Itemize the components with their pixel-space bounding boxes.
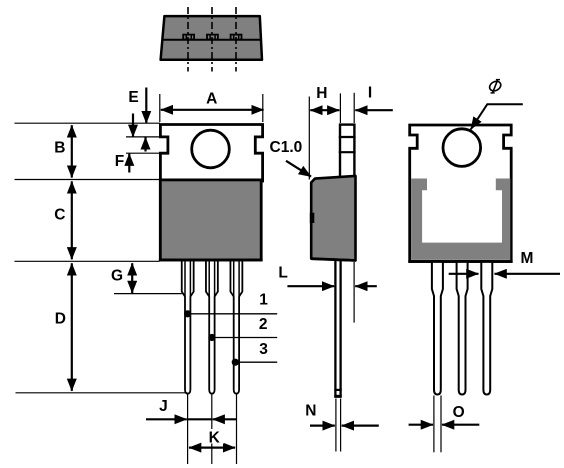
dimension M left arrow: [449, 273, 479, 275]
pin 2 callout line: [212, 337, 277, 339]
dimension O right arrow: [442, 424, 479, 426]
extension line lead2 center: [211, 395, 213, 465]
extension line lead tip: [16, 392, 188, 394]
side view lead tip square: [334, 395, 341, 398]
svg-text:O: O: [453, 404, 465, 421]
dimension K arrow: [189, 447, 235, 449]
back view molding flash (gray U): [411, 179, 510, 260]
extension line H left: [308, 97, 310, 180]
extension line N left: [335, 399, 337, 452]
back view lead 3: [481, 261, 492, 395]
phi label: [488, 79, 503, 92]
top view centerline pin1: [187, 7, 189, 72]
notch top extension line: [126, 136, 161, 138]
side view lead tip bar: [334, 389, 341, 391]
svg-text:G: G: [111, 268, 123, 285]
phi leader arrow: [471, 104, 523, 129]
front view lead 3: [230, 259, 242, 394]
svg-text:L: L: [278, 264, 287, 281]
dimension H arrow: [310, 109, 339, 111]
side view tab strip groove 2: [339, 151, 356, 153]
top view lead 1 cross-section: [183, 34, 194, 40]
pin 1 callout dot: [184, 310, 191, 317]
svg-text:A: A: [206, 90, 217, 107]
front view lead 3 inner edges: [233, 262, 235, 297]
dimension E lower arrow: [144, 137, 146, 151]
side view lead: [335, 260, 340, 397]
extension line lead1 center: [187, 395, 189, 465]
svg-text:C1.0: C1.0: [270, 139, 303, 156]
front view lead 1: [182, 259, 194, 394]
top view parting line: [162, 39, 261, 41]
dimension F arrow: [128, 154, 130, 173]
svg-text:E: E: [128, 89, 138, 106]
dimension J right arrow: [213, 418, 237, 420]
pin 2 callout dot: [208, 334, 215, 341]
svg-text:F: F: [115, 153, 124, 170]
svg-text:C: C: [54, 207, 65, 224]
svg-text:K: K: [209, 429, 221, 446]
extension line N right: [340, 399, 342, 452]
dimension A arrow: [161, 109, 264, 111]
top view centerline pin3: [235, 7, 237, 72]
front view mounting hole: [192, 130, 230, 168]
pin 1 callout line: [188, 313, 278, 315]
notch bottom extension line: [126, 152, 161, 154]
dimension G arrow: [131, 263, 133, 293]
top view lead 3 cross-section: [231, 34, 242, 40]
extension line body bottom: [15, 260, 160, 262]
extension line lead3 center: [236, 395, 238, 465]
svg-text:J: J: [159, 398, 168, 415]
extension line A left: [159, 94, 161, 122]
side view gate mark bump: [310, 213, 315, 223]
top view package body (trapezoid): [161, 16, 262, 60]
front view body bottom edge restroke: [159, 259, 263, 262]
svg-text:1: 1: [259, 292, 268, 309]
back view outline with side notches: [410, 125, 512, 262]
svg-text:3: 3: [259, 341, 268, 358]
pin 3 callout dot: [232, 359, 239, 366]
dimension L right arrow: [355, 285, 377, 287]
extension line body top: [15, 179, 160, 181]
side view tab strip groove 1: [339, 136, 356, 138]
dimension I arrow: [355, 109, 393, 111]
extension line lead shoulder: [114, 293, 182, 295]
label K: [205, 429, 224, 444]
dimension N left arrow: [310, 425, 335, 427]
dimension E upper arrow: [145, 88, 147, 124]
svg-text:I: I: [368, 84, 372, 101]
svg-text:H: H: [316, 85, 327, 102]
svg-text:2: 2: [259, 316, 268, 333]
front view molded body: [160, 180, 261, 260]
back view lead 2: [457, 261, 468, 395]
extension line L back: [353, 262, 355, 323]
dimension O left arrow: [409, 424, 433, 426]
dimension D arrow: [71, 263, 73, 391]
front view lead 2 inner edges: [208, 262, 210, 297]
dimension E second arrow: [132, 114, 134, 137]
back view lead 1: [432, 261, 443, 395]
svg-text:D: D: [55, 311, 66, 328]
front view mounting tab outline with side notches: [160, 125, 262, 182]
back view mounting hole: [443, 129, 481, 167]
dimension C arrow: [71, 181, 73, 259]
svg-text:B: B: [54, 140, 65, 157]
pin 3 callout line: [235, 361, 277, 363]
top view centerline pin2: [211, 7, 213, 72]
dimension N right arrow: [342, 425, 379, 427]
extension line tab back: [353, 93, 355, 123]
side view tab strip: [340, 125, 354, 178]
dimension J left arrow: [146, 418, 187, 420]
top view lead 2 cross-section: [207, 34, 218, 40]
side view molded body: [311, 176, 355, 261]
extension line tab front: [339, 93, 341, 123]
svg-text:N: N: [305, 402, 316, 419]
back view bottom edge restroke: [408, 260, 512, 263]
dimension J connecting line: [188, 418, 212, 420]
extension line O right: [440, 396, 442, 453]
dimension L left arrow: [287, 285, 334, 287]
front view lead 2: [206, 259, 218, 394]
dimension B arrow: [71, 125, 73, 177]
svg-text:M: M: [521, 250, 534, 267]
front view lead 1 inner edges: [184, 262, 186, 297]
extension line O left: [433, 396, 435, 453]
extension line A right: [262, 94, 264, 122]
dimension M right arrow: [495, 273, 561, 275]
chamfer leader arrow: [286, 161, 311, 177]
extension line tab top: [15, 122, 161, 124]
side view body bottom edge restroke: [311, 259, 355, 261]
